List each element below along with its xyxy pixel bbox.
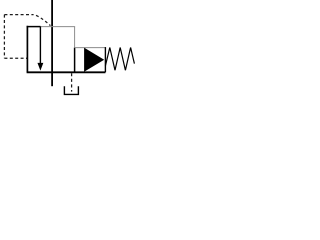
pilot operator box: shared left edge (black lower part) [74, 48, 76, 73]
pilot line dashed: lower horizontal into valve body [4, 57, 27, 59]
valve body: top edge black segment [27, 26, 41, 28]
pilot line dashed: left vertical run [3, 15, 5, 59]
spring (zigzag) [105, 48, 134, 71]
wire: pressure supply line P (vertical through valve) [51, 0, 53, 86]
tank symbol [64, 86, 79, 94]
pilot line dashed: arc to supply junction [34, 15, 50, 26]
pilot actuation triangle (filled, pointing right) [85, 48, 104, 71]
pilot operator box: right edge [104, 47, 106, 72]
valve body: right edge upper gray segment [74, 27, 76, 48]
pilot operator box: top edge gray [75, 47, 106, 49]
drain line dashed to tank [71, 73, 73, 91]
valve body: top edge gray segment [41, 26, 76, 28]
valve body: bottom edge [27, 71, 106, 73]
pilot line dashed: top horizontal run [4, 14, 33, 16]
valve body: left edge [26, 26, 28, 73]
flow path arrow stem [39, 27, 41, 65]
flow path arrowhead (down) [38, 63, 43, 70]
